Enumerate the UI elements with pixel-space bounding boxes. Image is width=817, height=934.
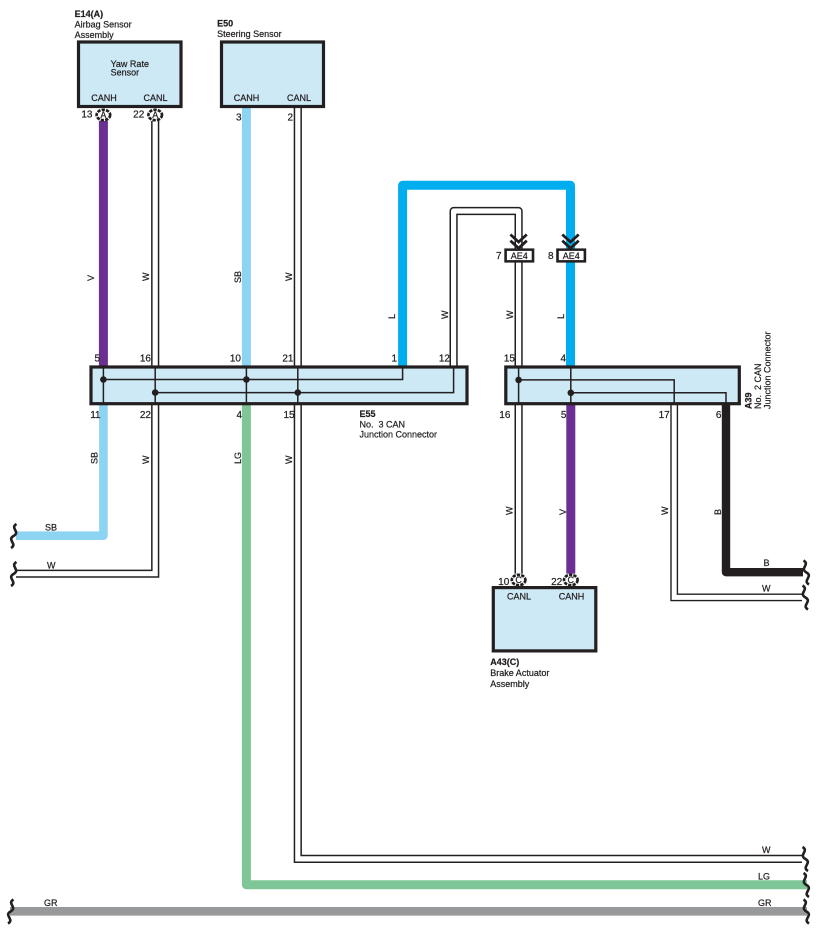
E55 internal vertical pin21-15 (297, 367, 299, 404)
svg-text:13: 13 (81, 109, 93, 120)
break symbol GR left (8, 900, 14, 924)
label W (284, 272, 294, 281)
svg-text:10: 10 (498, 577, 510, 588)
junction dot E55 pin21 (295, 389, 302, 396)
wire GR bottom (10, 907, 807, 916)
actuator box A43(C) Brake Actuator Assembly (493, 588, 596, 651)
wire W A39 pin17 to right edge (674, 404, 802, 597)
svg-text:Airbag Sensor: Airbag Sensor (75, 20, 132, 30)
break symbol W left (11, 562, 17, 586)
label SB horizontal (45, 523, 57, 533)
svg-text:A: A (152, 110, 158, 120)
svg-text:GR: GR (758, 898, 772, 908)
E55 internal vertical pin5-11 (102, 367, 104, 404)
label GR left (44, 898, 58, 908)
wire V A39 pin5 to A43 pin22 (566, 404, 575, 574)
svg-text:L: L (387, 314, 397, 319)
svg-text:16: 16 (140, 354, 152, 365)
svg-text:GR: GR (44, 898, 58, 908)
svg-text:A43(C): A43(C) (490, 657, 519, 667)
label A43(C) (490, 657, 549, 689)
svg-text:LG: LG (233, 452, 243, 464)
label A39 rotated (744, 331, 773, 409)
label GR right (758, 898, 772, 908)
wire W E55 pin15 to right edge (298, 404, 802, 859)
svg-text:15: 15 (283, 410, 295, 421)
svg-text:SB: SB (45, 523, 57, 533)
label SB (233, 271, 243, 283)
connector AE4 pin7 (496, 248, 534, 262)
svg-text:E14(A): E14(A) (75, 9, 104, 19)
label E14(A) (75, 9, 132, 40)
break symbol W right (803, 586, 809, 610)
junction dot A39 pin4 (568, 390, 575, 397)
svg-text:Assembly: Assembly (75, 30, 115, 40)
pin 22 circle A (133, 109, 162, 120)
svg-text:22: 22 (140, 410, 152, 421)
svg-text:CANH: CANH (559, 592, 585, 602)
svg-text:7: 7 (496, 251, 502, 262)
label B mid (713, 509, 723, 515)
svg-text:CANH: CANH (91, 93, 117, 103)
svg-text:W: W (505, 506, 515, 515)
svg-text:AE4: AE4 (563, 251, 580, 261)
label W right mid (660, 506, 670, 515)
svg-text:A39: A39 (744, 392, 754, 409)
svg-text:L: L (556, 314, 566, 319)
svg-text:10: 10 (230, 354, 242, 365)
svg-text:E55: E55 (360, 409, 376, 419)
svg-text:W: W (284, 455, 294, 464)
label LG horizontal (758, 872, 770, 882)
label W lower (141, 455, 151, 464)
A39 pin numbers bottom (499, 410, 722, 421)
junction connector A39 box (506, 367, 740, 404)
label W (141, 272, 151, 281)
svg-text:B: B (764, 558, 770, 568)
A39 internal CANH bus to pin6 (571, 393, 726, 404)
pin 2 label (287, 112, 293, 123)
label LG lower (233, 452, 243, 464)
junction dot A39 pin15 (515, 377, 522, 384)
wire SB E50 pin3 to E55 pin10 (242, 108, 251, 366)
svg-text:Assembly: Assembly (490, 679, 530, 689)
svg-text:E50: E50 (217, 19, 233, 29)
svg-text:AE4: AE4 (511, 251, 528, 261)
svg-text:V: V (86, 275, 96, 281)
connector AE4 pin8 (548, 248, 586, 262)
wire LG E55 pin4 to right edge (246, 404, 807, 885)
svg-text:V: V (558, 509, 568, 515)
svg-text:Steering Sensor: Steering Sensor (217, 29, 282, 39)
pin 13 circle A (81, 109, 110, 120)
svg-text:No. 3 CAN: No. 3 CAN (360, 420, 406, 430)
svg-text:B: B (713, 509, 723, 515)
svg-text:4: 4 (560, 354, 566, 365)
wire W E55 pin12 to A39 pin15 via AE4 (454, 211, 519, 366)
E55 internal CANH bus (103, 367, 402, 380)
svg-text:21: 21 (282, 354, 294, 365)
svg-text:W: W (284, 272, 294, 281)
svg-text:4: 4 (236, 410, 242, 421)
label W right loop (505, 310, 515, 319)
junction dot E55 pin5 (100, 376, 107, 383)
svg-text:Sensor: Sensor (111, 68, 140, 78)
wire W E50 pin2 to E55 pin21 (294, 108, 302, 366)
svg-text:Brake Actuator: Brake Actuator (490, 668, 549, 678)
svg-text:C: C (515, 575, 522, 585)
label W left loop (440, 310, 450, 319)
label E55 (360, 409, 438, 440)
A39 pin numbers top (504, 354, 567, 365)
svg-text:W: W (47, 561, 56, 571)
A39 internal vertical pin4-5 (570, 367, 572, 404)
svg-text:CANH: CANH (234, 93, 260, 103)
E55 internal CANL bus (155, 367, 453, 393)
chevron arrows above AE4 8 (562, 235, 578, 249)
svg-text:Junction Connector: Junction Connector (763, 331, 773, 409)
svg-text:W: W (141, 455, 151, 464)
A39 internal CANL bus to pin17 (519, 380, 675, 404)
svg-text:Junction Connector: Junction Connector (360, 430, 438, 440)
wire L E55 pin1 to A39 pin4 via AE4 (403, 185, 571, 366)
svg-text:W: W (762, 845, 771, 855)
svg-text:6: 6 (716, 410, 722, 421)
svg-text:SB: SB (233, 271, 243, 283)
wire W E14 pin22 to E55 pin16 (151, 121, 159, 366)
label V (86, 275, 96, 281)
chevron arrows above AE4 7 (510, 235, 526, 249)
svg-text:C: C (568, 575, 575, 585)
wire SB E55 pin11 to left edge (16, 404, 103, 536)
sensor box E14(A) Yaw Rate Sensor (79, 42, 182, 107)
svg-text:8: 8 (548, 251, 554, 262)
svg-text:1: 1 (391, 354, 397, 365)
svg-text:W: W (440, 310, 450, 319)
svg-text:LG: LG (758, 872, 770, 882)
label W horizontal bottom (762, 845, 771, 855)
pin 10 circle C (498, 575, 525, 588)
label L left (387, 314, 397, 319)
label V mid (558, 509, 568, 515)
svg-text:2: 2 (287, 112, 293, 123)
svg-text:17: 17 (659, 410, 671, 421)
label W mid (505, 506, 515, 515)
svg-text:A: A (100, 110, 106, 120)
svg-text:16: 16 (499, 410, 511, 421)
svg-text:5: 5 (561, 410, 567, 421)
pin 22 circle C (551, 575, 578, 588)
A39 internal vertical pin15-16 (518, 367, 520, 404)
svg-text:3: 3 (236, 112, 242, 123)
svg-text:CANL: CANL (287, 93, 311, 103)
svg-text:W: W (660, 506, 670, 515)
svg-text:W: W (141, 272, 151, 281)
svg-text:CANL: CANL (143, 93, 167, 103)
break symbol W right bottom (803, 847, 809, 871)
junction dot E55 pin16 (152, 389, 159, 396)
svg-text:12: 12 (439, 354, 451, 365)
label SB lower (90, 452, 100, 464)
svg-text:CANL: CANL (507, 592, 531, 602)
wire W A39 pin16 to A43 pin10 (514, 404, 522, 574)
break symbol LG right (804, 873, 810, 897)
svg-text:11: 11 (90, 410, 101, 421)
E55 internal vertical pin10-4 (245, 367, 247, 404)
svg-text:SB: SB (90, 452, 100, 464)
svg-text:15: 15 (504, 354, 516, 365)
label W horizontal right (762, 584, 771, 594)
label W horizontal (47, 561, 56, 571)
label B horizontal (764, 558, 770, 568)
break symbol GR right (804, 900, 810, 924)
svg-text:No. 2 CAN: No. 2 CAN (753, 363, 763, 409)
svg-text:W: W (762, 584, 771, 594)
svg-text:22: 22 (133, 109, 145, 120)
junction dot E55 pin10 (243, 376, 250, 383)
break symbol SB left (11, 524, 17, 548)
pin 3 label (236, 112, 242, 123)
svg-text:W: W (505, 310, 515, 319)
wire W E55 pin22 to left edge (16, 404, 155, 574)
E55 internal vertical pin16-22 (154, 367, 156, 404)
sensor box E50 Steering Sensor (222, 42, 324, 107)
break symbol B right (804, 561, 810, 585)
label W lower right (284, 455, 294, 464)
wire B A39 pin6 to right edge (726, 404, 803, 572)
junction connector E55 box (91, 367, 467, 404)
svg-text:22: 22 (551, 577, 563, 588)
label L right (556, 314, 566, 319)
svg-text:5: 5 (94, 354, 100, 365)
wire V E14 pin13 to E55 pin5 (99, 121, 108, 366)
label E50 (217, 19, 282, 40)
E55 pin numbers top (94, 354, 450, 365)
E55 pin numbers bottom (90, 410, 295, 421)
